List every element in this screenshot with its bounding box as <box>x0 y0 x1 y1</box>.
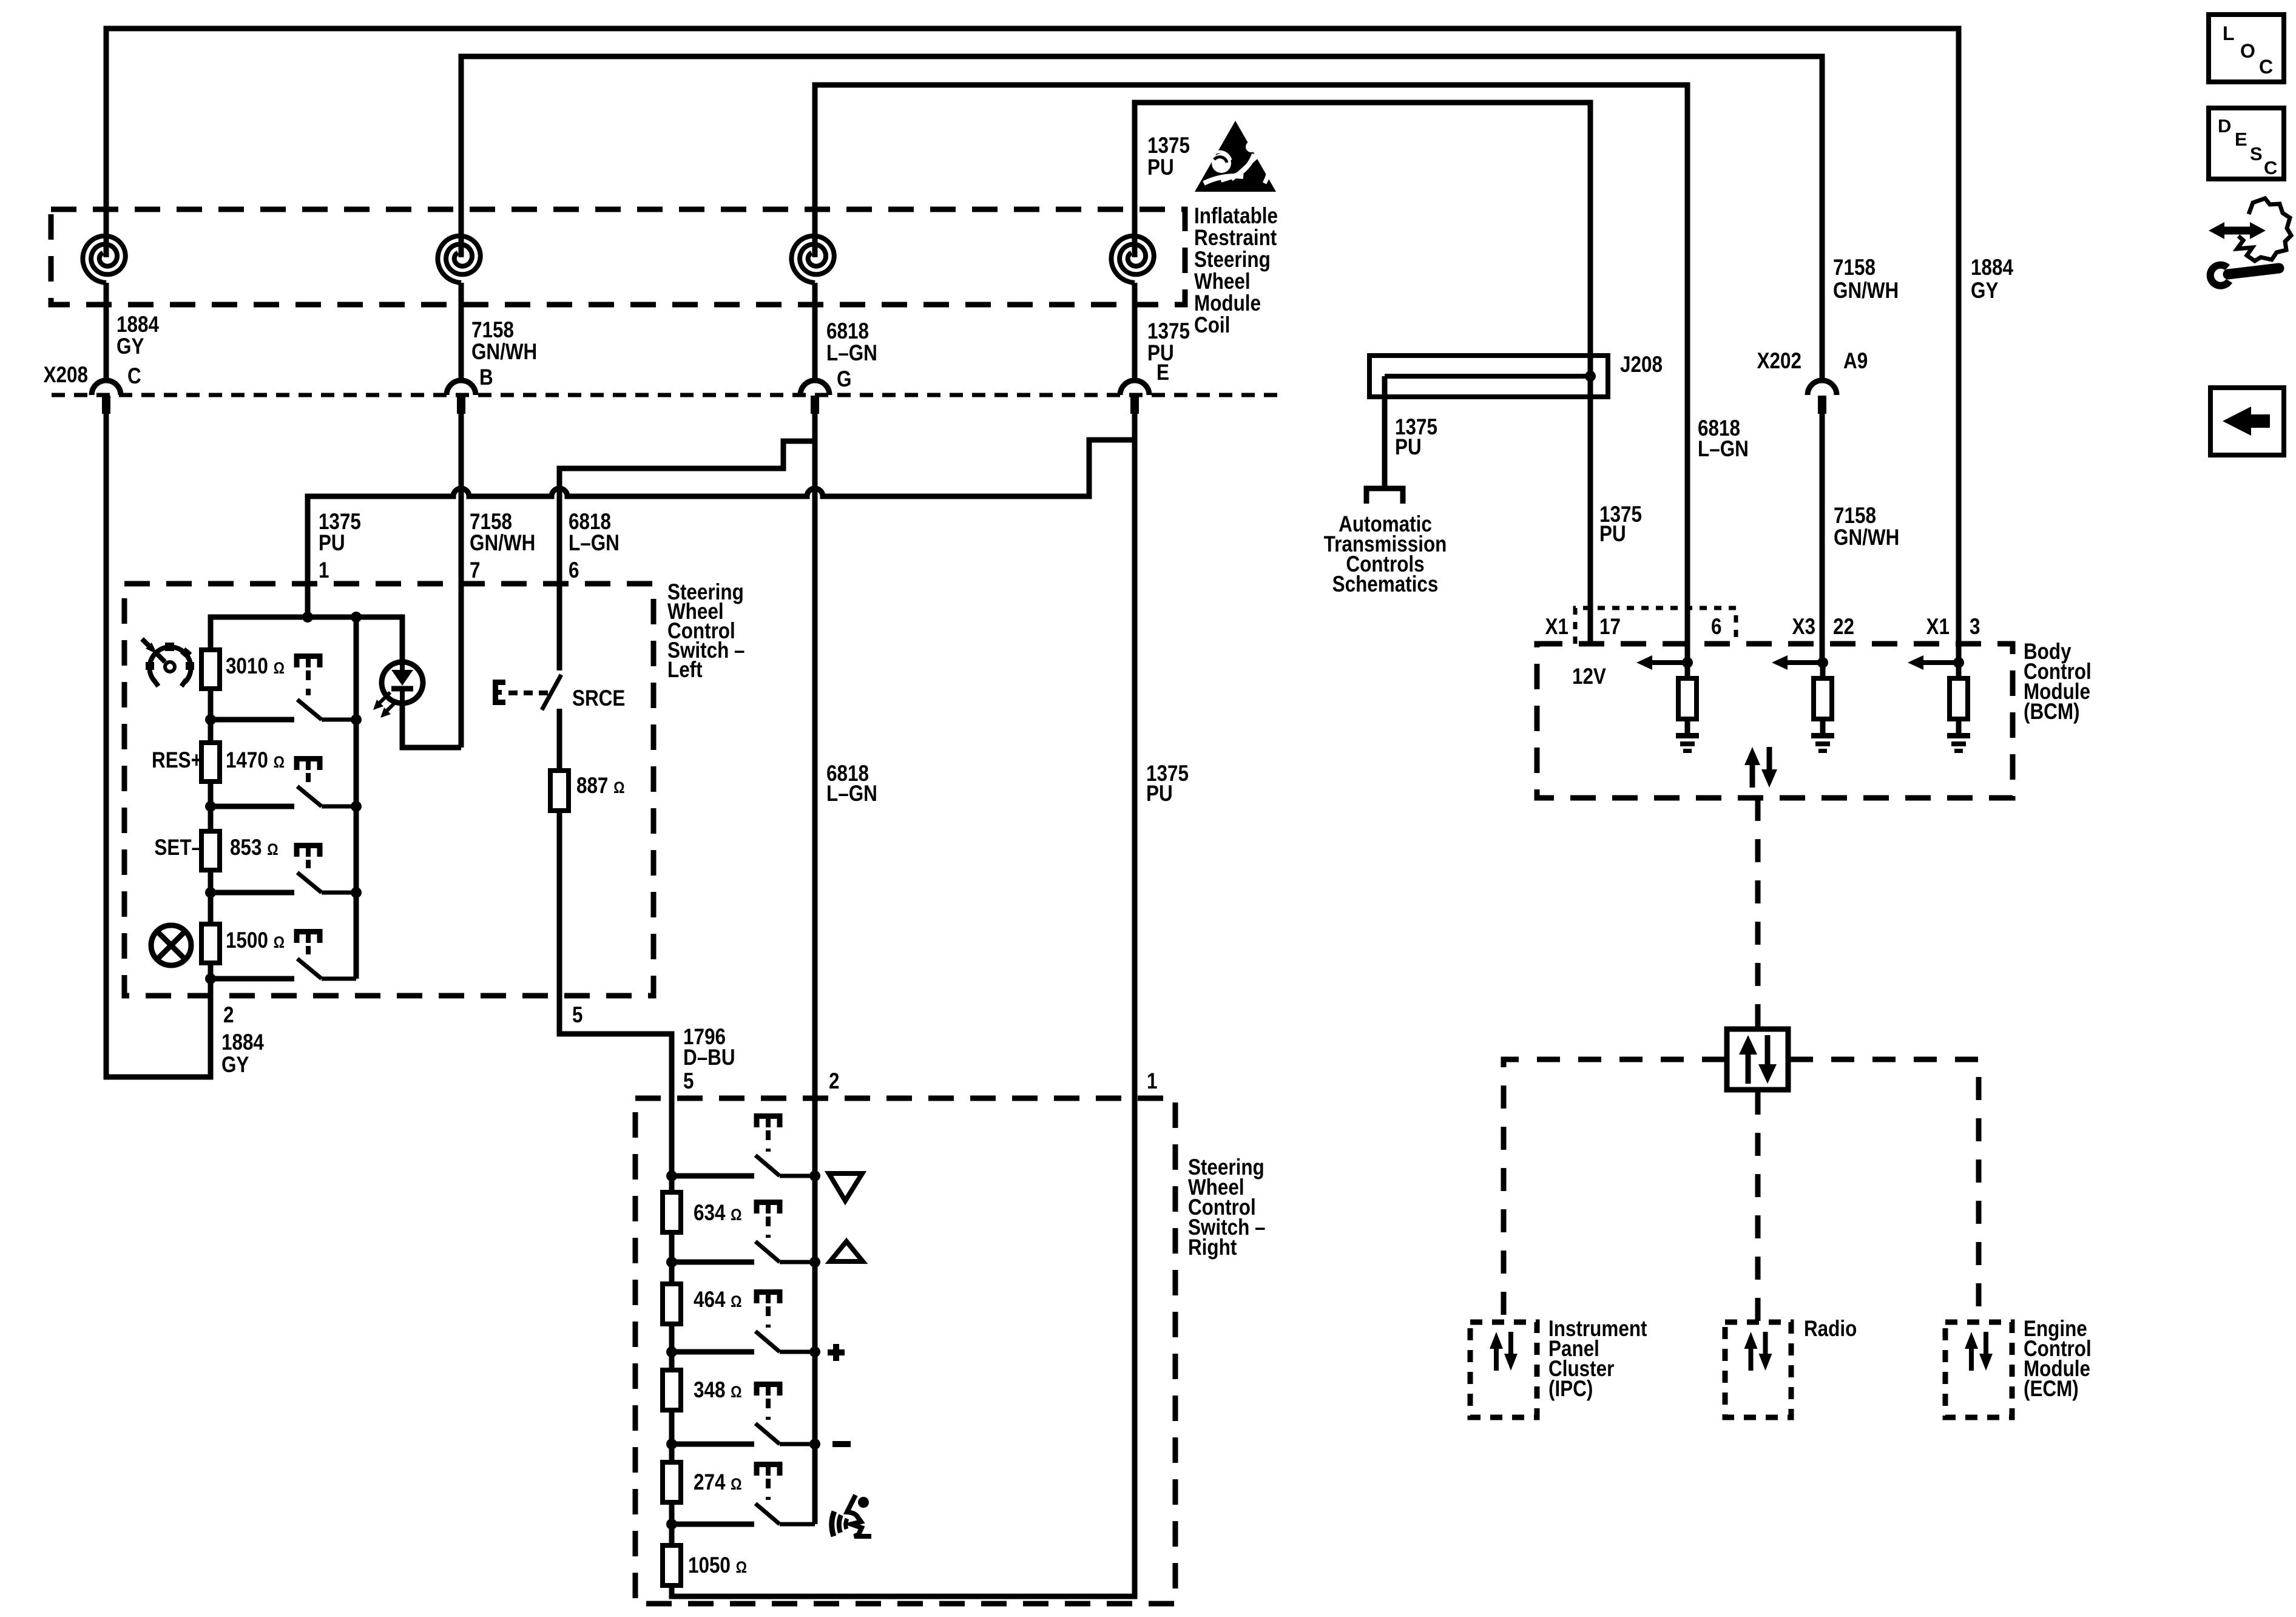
switch S4 (left box) <box>297 932 320 944</box>
svg-text:L–GN: L–GN <box>569 531 620 556</box>
wire 1375 PU: J208 to Automatic Transmission schematic <box>1382 376 1388 487</box>
wire: switch output column <box>354 617 359 979</box>
connector X208 pin C <box>92 380 121 395</box>
svg-text:Wheel: Wheel <box>1194 269 1251 294</box>
svg-text:L–GN: L–GN <box>1698 437 1749 462</box>
resistor 274 ohm <box>663 1462 681 1502</box>
svg-text:L–GN: L–GN <box>826 781 877 806</box>
svg-text:PU: PU <box>1147 341 1174 366</box>
symbol: volume down (open triangle down) <box>829 1173 862 1201</box>
symbol: volume up (open triangle up) <box>830 1241 863 1261</box>
svg-text:12V: 12V <box>1572 664 1606 689</box>
svg-text:X3: X3 <box>1792 615 1815 640</box>
svg-text:1375: 1375 <box>1147 133 1190 158</box>
dotted connector bracket X1 (pins 17,6) <box>1575 608 1736 644</box>
wire: right switch row at y=2380 <box>672 1442 754 1447</box>
symbol: seek + <box>828 1349 845 1355</box>
coil G (spiral) <box>791 236 834 283</box>
switch S3 (left box) <box>297 846 320 857</box>
resistor 853 ohm <box>201 831 220 870</box>
dashed wire: junction to IPC <box>1504 1059 1725 1322</box>
BCM input pull-down at x=2781: arrow, resistor, ground <box>1682 657 1693 668</box>
LED indicator (circle, diode, emission arrows) <box>401 617 402 662</box>
wire: 887 to pin 5, jog to right switch chain <box>559 811 672 1585</box>
svg-text:PU: PU <box>319 531 345 556</box>
serial data arrows inside BCM <box>1750 761 1755 788</box>
resistor 3010 ohm <box>201 650 220 689</box>
svg-text:SRCE: SRCE <box>572 686 625 711</box>
svg-text:D: D <box>2218 115 2231 137</box>
resistor 1500 ohm <box>201 924 220 963</box>
svg-text:7: 7 <box>470 558 480 583</box>
wire: switch row at y=1471 <box>211 890 294 896</box>
connector X208 pin B <box>447 380 476 395</box>
svg-text:1884: 1884 <box>1971 255 2013 280</box>
wire: SRCE to 887 resistor <box>557 709 562 772</box>
svg-text:RES+: RES+ <box>152 748 202 773</box>
dashed wire: junction to ECM <box>1790 1059 1979 1322</box>
warning triangle icon (airbag) <box>1195 121 1276 192</box>
svg-text:GY: GY <box>1971 279 1999 303</box>
wire 6818 L-GN branch: jog from G to left switch pin 6 <box>559 441 815 670</box>
wire 1375 PU branch: from E jog, long run left with hops over B, pin6, G wires, down to left switch pin 1 <box>308 440 1135 617</box>
BCM input pull-down at x=3004: arrow, resistor, ground <box>1817 657 1828 668</box>
wire: switch row at y=1186 <box>211 717 294 723</box>
svg-text:Inflatable: Inflatable <box>1194 204 1278 229</box>
svg-text:X208: X208 <box>44 363 88 388</box>
BCM input pull-down at x=3228: arrow, resistor, ground <box>1953 657 1964 668</box>
coil B (spiral) <box>437 236 480 283</box>
resistor 887 ohm <box>550 771 569 811</box>
switch S2 (right box) <box>757 1203 780 1214</box>
off-page connector fork <box>1366 488 1403 504</box>
svg-text:E: E <box>2235 129 2247 150</box>
svg-text:Right: Right <box>1188 1235 1237 1260</box>
svg-text:GN/WH: GN/WH <box>470 531 535 556</box>
wire 1375 PU bus: coil E up, across, down through J208 to BCM X1-17 <box>1135 103 1590 644</box>
dashed wire: BCM to serial data junction <box>1755 798 1761 1027</box>
symbol: seek - <box>832 1441 851 1447</box>
resistor 348 ohm <box>663 1370 681 1410</box>
wire: switch row at y=1613 <box>211 976 294 982</box>
switch S5 (right box) <box>757 1465 780 1476</box>
wire 6818 L-GN bus: coil G up, across, down to BCM X1-6 <box>815 85 1687 663</box>
icon: voice recognition (speaking head with sound waves) <box>832 1495 871 1536</box>
svg-text:L: L <box>2223 22 2235 44</box>
dashed box: Engine Control Module (ECM) <box>1945 1322 2012 1417</box>
svg-text:PU: PU <box>1395 435 1422 460</box>
connector X208 pin G <box>800 380 829 395</box>
svg-text:D–BU: D–BU <box>683 1045 735 1070</box>
switch S2 (left box) <box>297 759 320 771</box>
svg-text:C: C <box>2264 157 2277 178</box>
svg-text:J208: J208 <box>1620 353 1663 377</box>
svg-text:O: O <box>2240 40 2255 62</box>
connector X208 pin E <box>1120 380 1149 395</box>
switch S3 (right box) <box>757 1292 780 1304</box>
resistor 464 ohm <box>663 1284 681 1324</box>
icon: cruise speedometer (gauge with needle and arrow) <box>150 647 191 686</box>
dashed box: Inflatable Restraint Steering Wheel Module Coil <box>51 209 1185 305</box>
svg-text:17: 17 <box>1599 615 1621 640</box>
wire 7158 GN/WH: X202 to BCM X3-22 <box>1820 414 1825 663</box>
svg-text:Coil: Coil <box>1194 313 1230 338</box>
svg-text:7158: 7158 <box>1833 255 1876 280</box>
svg-text:B: B <box>479 365 493 390</box>
wire 1884 GY: pin C down left side to switch pin 2 <box>106 414 211 1077</box>
icon: lamp (circle with X) <box>151 925 191 965</box>
svg-text:PU: PU <box>1147 155 1174 180</box>
svg-text:6818: 6818 <box>826 319 869 344</box>
svg-text:2: 2 <box>223 1003 234 1028</box>
svg-text:C: C <box>2259 56 2273 78</box>
svg-text:2: 2 <box>829 1069 839 1094</box>
switch S1 (right box) <box>757 1116 780 1128</box>
svg-text:G: G <box>837 367 851 392</box>
resistor 1470 ohm <box>201 743 220 781</box>
dashed box: Radio <box>1725 1322 1791 1417</box>
wire: right switch row at y=2080 <box>672 1260 754 1265</box>
svg-text:GN/WH: GN/WH <box>471 340 537 365</box>
svg-text:PU: PU <box>1146 781 1173 806</box>
dashed box: Steering Wheel Control Switch - Left <box>124 584 653 996</box>
resistor 1050 ohm <box>663 1545 681 1585</box>
resistor 634 ohm <box>663 1192 681 1232</box>
icon box LOC <box>2209 15 2284 82</box>
svg-text:X1: X1 <box>1545 615 1568 640</box>
svg-text:X202: X202 <box>1757 349 1801 374</box>
junction dots left box <box>302 612 313 623</box>
svg-text:Schematics: Schematics <box>1332 572 1439 597</box>
svg-text:1375: 1375 <box>1147 319 1190 344</box>
svg-text:1: 1 <box>319 558 329 583</box>
svg-text:5: 5 <box>683 1069 694 1094</box>
wire: switch row at y=1329 <box>211 804 294 809</box>
svg-text:Left: Left <box>667 658 703 683</box>
wire 1375 PU: pin E down to right switch pin 1, along bottom to chain <box>672 414 1135 1596</box>
splice pack J208 <box>1369 356 1608 397</box>
LED emission arrows <box>377 692 390 705</box>
svg-text:7158: 7158 <box>1834 504 1876 528</box>
coil E (spiral) <box>1111 236 1153 283</box>
icon box: back arrow <box>2210 388 2284 455</box>
svg-text:C: C <box>127 364 141 389</box>
svg-text:1884: 1884 <box>221 1030 264 1055</box>
svg-text:Steering: Steering <box>1194 248 1271 272</box>
svg-text:6: 6 <box>1711 615 1721 640</box>
coil C (spiral) <box>83 236 125 283</box>
svg-text:(ECM): (ECM) <box>2024 1377 2079 1402</box>
svg-text:S: S <box>2250 143 2263 164</box>
dashed box: Body Control Module (BCM) <box>1537 644 2013 798</box>
svg-text:1: 1 <box>1147 1069 1157 1094</box>
icon: harness routing (double arrow, outline, wrench) <box>2209 198 2291 286</box>
svg-text:Restraint: Restraint <box>1194 226 1277 251</box>
svg-text:Module: Module <box>1194 291 1261 316</box>
switch SRCE with E actuator <box>493 680 505 705</box>
wire 7158 GN/WH bus: coil B up, across, down to X202 <box>461 56 1822 380</box>
switch S4 (right box) <box>757 1385 780 1396</box>
wire: right switch row at y=2228 <box>672 1349 754 1355</box>
svg-text:X1: X1 <box>1926 615 1950 640</box>
svg-text:3: 3 <box>1970 615 1980 640</box>
svg-text:GY: GY <box>116 334 144 359</box>
svg-text:5: 5 <box>572 1003 582 1028</box>
icon box DESC <box>2209 108 2284 179</box>
svg-text:GN/WH: GN/WH <box>1833 279 1899 303</box>
wire: LED cathode to pin 7 <box>402 703 461 748</box>
dashed wire: junction to Radio <box>1755 1092 1761 1322</box>
dashed box: Instrument Panel Cluster (IPC) <box>1470 1322 1537 1417</box>
svg-text:1884: 1884 <box>116 312 159 337</box>
wire: right switch row at y=1938 <box>672 1173 754 1179</box>
svg-text:(IPC): (IPC) <box>1548 1377 1593 1402</box>
wire 1884 GY bus: coil C up, across top, down right side to BCM X1-3 <box>106 29 1959 663</box>
svg-text:6: 6 <box>569 558 579 583</box>
wire: left chain (3010/1470/853/1500 ladder) <box>211 617 401 979</box>
svg-text:Radio: Radio <box>1804 1317 1857 1342</box>
wire 6818 L-GN: pin G down to right switch pin 2 column <box>812 414 818 1524</box>
svg-text:22: 22 <box>1833 615 1854 640</box>
svg-text:(BCM): (BCM) <box>2024 700 2080 724</box>
wire: right switch row at y=2512 <box>672 1522 754 1527</box>
svg-text:7158: 7158 <box>471 318 514 343</box>
connector row X208 (dotted line) <box>52 393 1286 397</box>
dashed box: Steering Wheel Control Switch - Right <box>635 1098 1175 1604</box>
switch S1 (left box) <box>297 657 320 668</box>
svg-text:PU: PU <box>1599 522 1626 547</box>
svg-text:SET–: SET– <box>154 836 202 860</box>
svg-text:GN/WH: GN/WH <box>1834 525 1899 550</box>
svg-text:GY: GY <box>221 1053 249 1078</box>
svg-text:L–GN: L–GN <box>826 341 877 366</box>
serial data junction box <box>1727 1029 1788 1090</box>
svg-text:A9: A9 <box>1843 349 1868 374</box>
connector X202 pin A9 <box>1808 380 1837 395</box>
wire 7158 GN/WH: pin B down to LED return <box>459 414 464 748</box>
